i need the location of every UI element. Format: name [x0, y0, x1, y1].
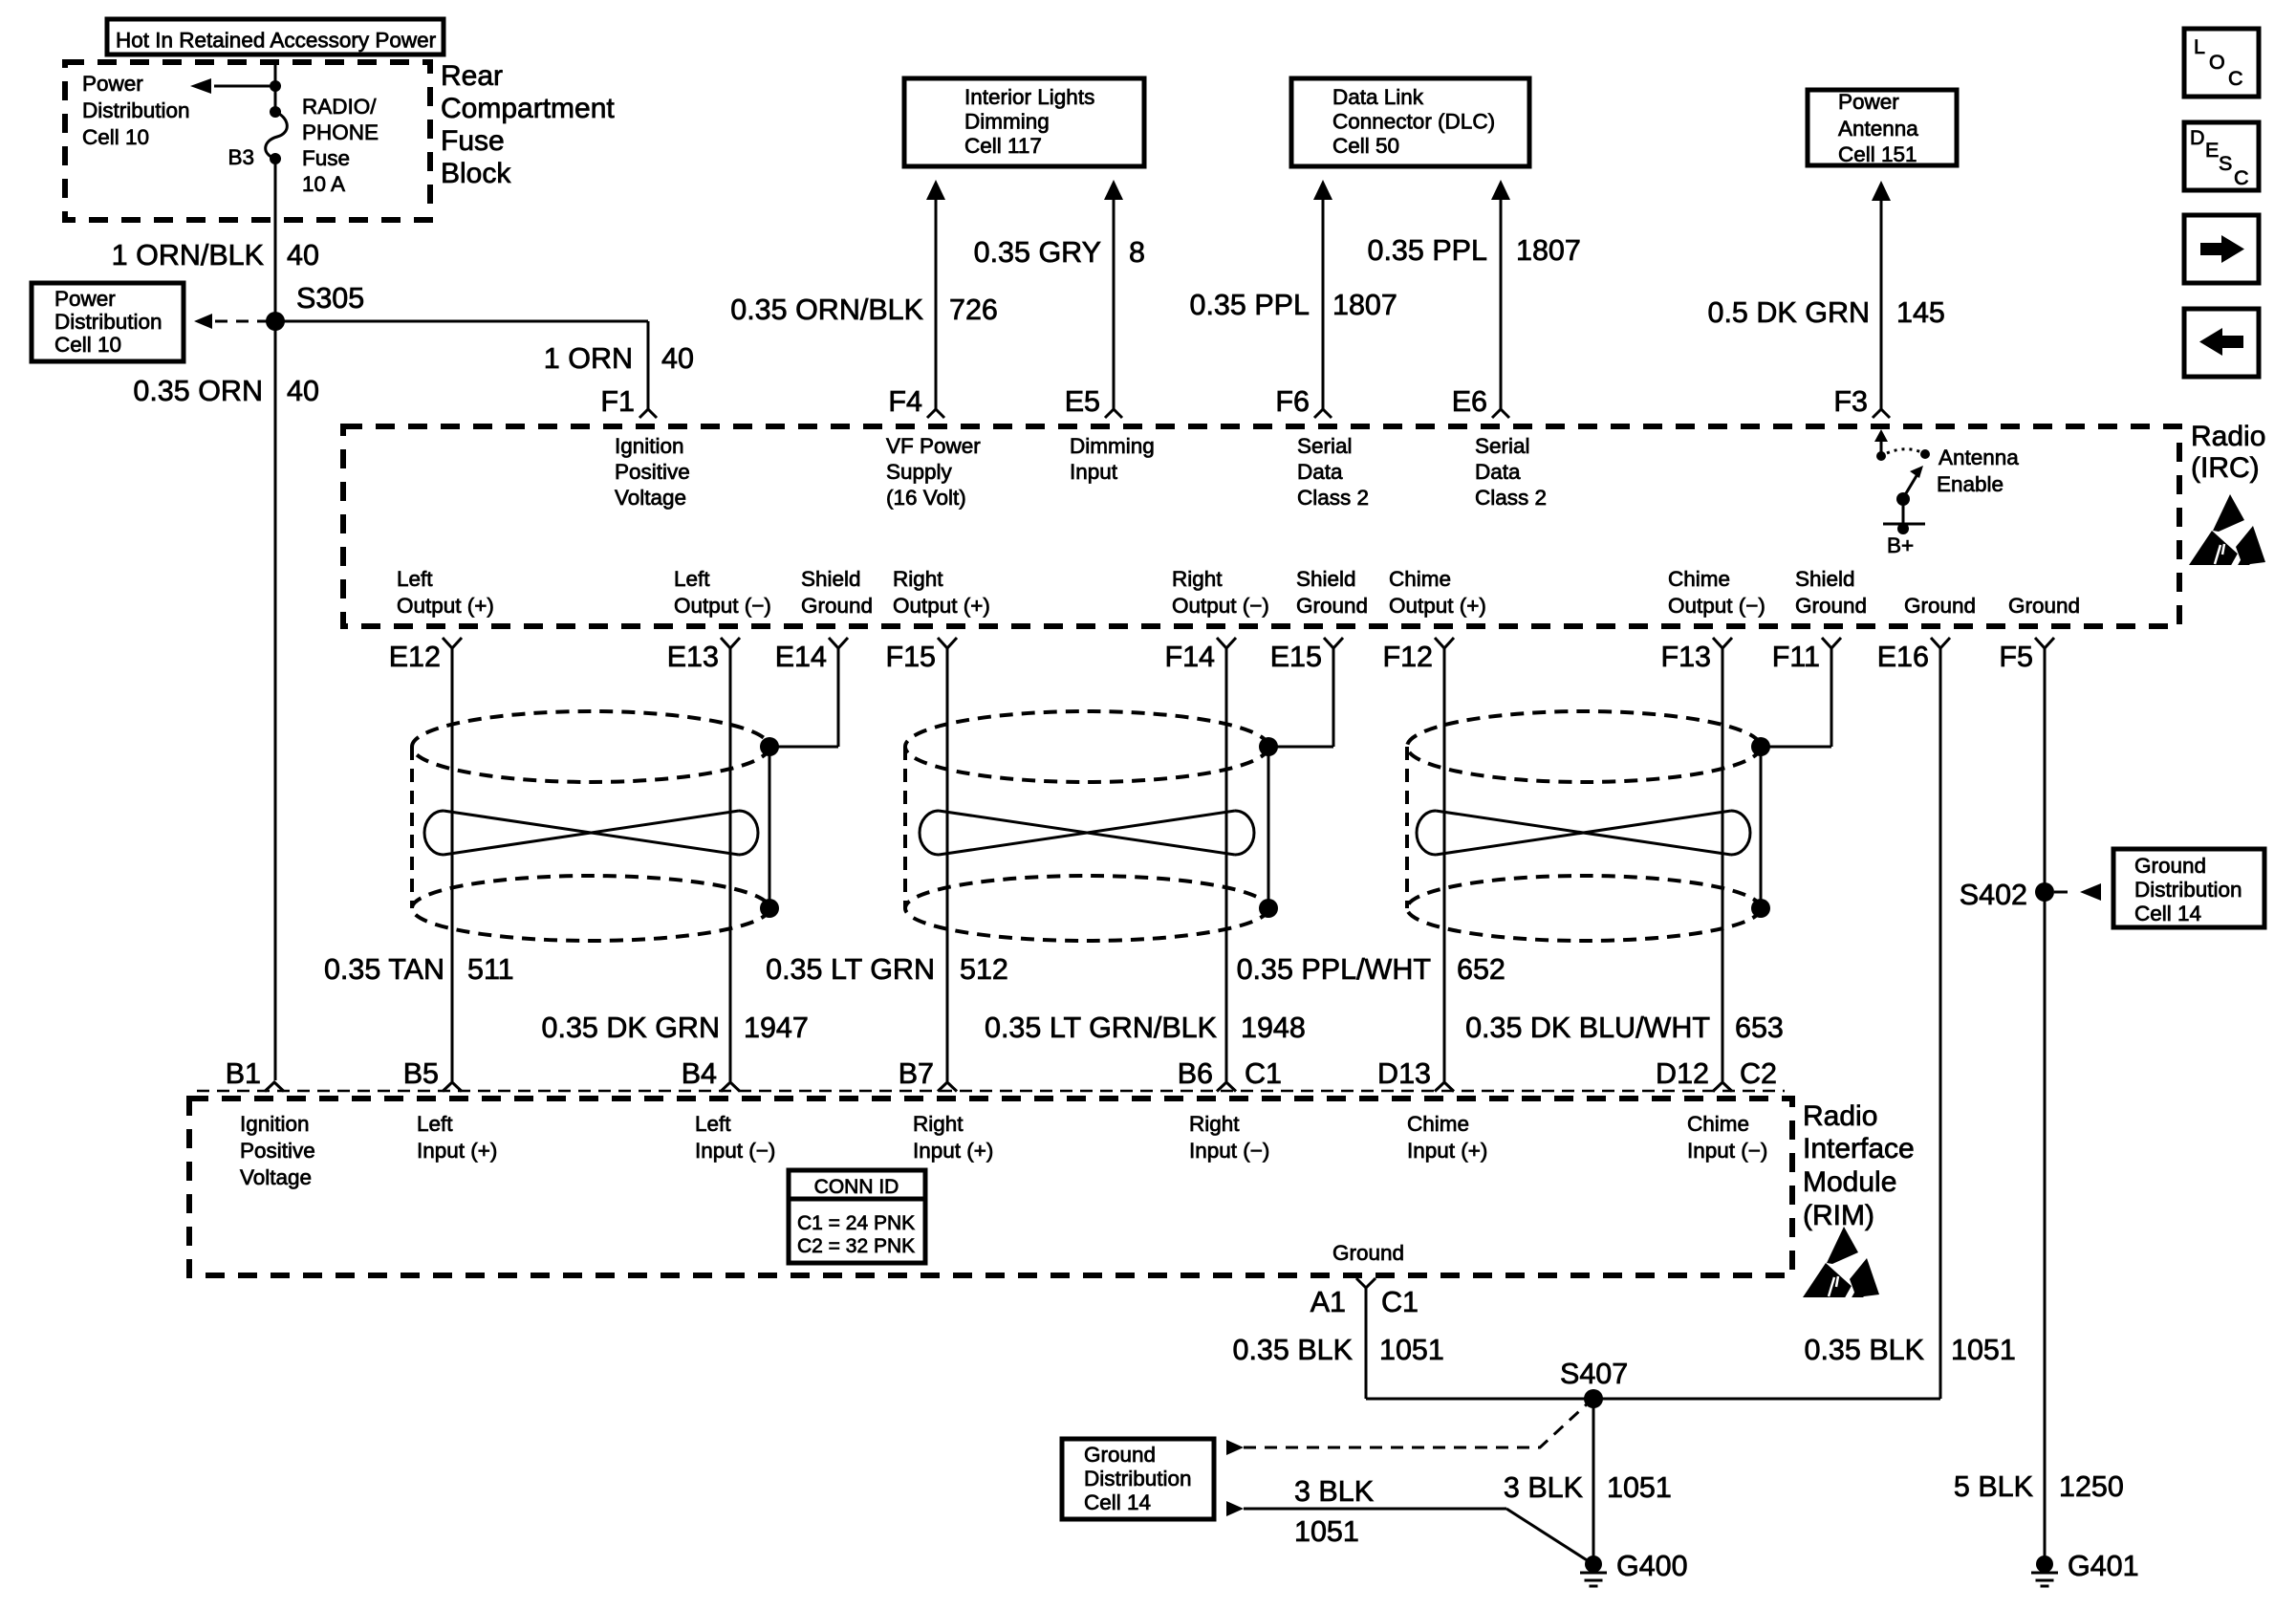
svg-text:F14: F14 [1164, 641, 1215, 673]
svg-text:F11: F11 [1772, 641, 1820, 673]
svg-text:(16 Volt): (16 Volt) [886, 486, 966, 510]
svg-text:Input: Input [1070, 460, 1118, 484]
svg-text:Compartment: Compartment [441, 93, 615, 124]
svg-text:1807: 1807 [1332, 289, 1397, 321]
svg-text:1051: 1051 [1294, 1515, 1359, 1548]
svg-text:(RIM): (RIM) [1803, 1200, 1874, 1231]
svg-text:C1: C1 [1245, 1057, 1282, 1090]
svg-text:(IRC): (IRC) [2191, 452, 2260, 484]
svg-text:F15: F15 [885, 641, 936, 673]
svg-text:Cell 117: Cell 117 [964, 134, 1042, 158]
svg-text:Chime: Chime [1668, 567, 1730, 591]
svg-text:Cell 10: Cell 10 [54, 333, 121, 357]
svg-text:Left: Left [397, 567, 433, 591]
svg-text:Cell 14: Cell 14 [2134, 902, 2201, 925]
svg-text:Power: Power [82, 72, 143, 96]
svg-text:E: E [2205, 139, 2219, 162]
svg-text:G400: G400 [1616, 1550, 1688, 1582]
svg-text:F13: F13 [1660, 641, 1711, 673]
svg-text:C2 = 32 PNK: C2 = 32 PNK [797, 1235, 915, 1257]
svg-text:B3: B3 [227, 145, 254, 169]
svg-text:Power: Power [54, 287, 116, 311]
svg-text:Cell 14: Cell 14 [1084, 1490, 1151, 1514]
svg-text:10 A: 10 A [302, 172, 345, 196]
svg-text:Fuse: Fuse [441, 125, 505, 157]
svg-text:Antenna: Antenna [1939, 446, 2019, 469]
svg-text:Fuse: Fuse [302, 146, 350, 170]
svg-text:Ground: Ground [2008, 594, 2080, 618]
svg-text:Right: Right [1172, 567, 1223, 591]
svg-text:B+: B+ [1887, 533, 1914, 557]
svg-text:8: 8 [1129, 236, 1145, 269]
svg-text:726: 726 [949, 294, 998, 326]
svg-text:0.5 DK GRN: 0.5 DK GRN [1708, 296, 1871, 329]
svg-text:B6: B6 [1178, 1057, 1213, 1090]
svg-text:Output (−): Output (−) [674, 594, 771, 618]
svg-text:0.35 ORN/BLK: 0.35 ORN/BLK [730, 294, 923, 326]
svg-text:Voltage: Voltage [615, 486, 686, 510]
svg-text:Serial: Serial [1297, 434, 1353, 458]
svg-text:Distribution: Distribution [1084, 1467, 1192, 1490]
svg-text:Antenna: Antenna [1838, 117, 1918, 141]
svg-text:Cell 151: Cell 151 [1838, 142, 1917, 166]
svg-text:Chime: Chime [1407, 1112, 1469, 1136]
svg-text:Chime: Chime [1687, 1112, 1749, 1136]
svg-text:Serial: Serial [1475, 434, 1530, 458]
svg-text:E15: E15 [1270, 641, 1322, 673]
svg-text:1 ORN/BLK: 1 ORN/BLK [112, 239, 264, 272]
svg-text:Interior Lights: Interior Lights [964, 85, 1094, 109]
svg-text:Data: Data [1475, 460, 1521, 484]
svg-text:Ground: Ground [1084, 1443, 1156, 1467]
svg-text:Shield: Shield [1795, 567, 1855, 591]
svg-text:Class 2: Class 2 [1475, 486, 1547, 510]
svg-text:Right: Right [913, 1112, 964, 1136]
svg-text:Input (+): Input (+) [417, 1139, 497, 1163]
svg-text:E16: E16 [1877, 641, 1929, 673]
svg-text:B1: B1 [226, 1057, 261, 1090]
svg-text:1 ORN: 1 ORN [544, 342, 633, 375]
svg-text:Left: Left [417, 1112, 453, 1136]
svg-text:652: 652 [1457, 953, 1505, 986]
svg-text:3 BLK: 3 BLK [1294, 1475, 1374, 1508]
svg-text:0.35 PPL/WHT: 0.35 PPL/WHT [1237, 953, 1431, 986]
svg-text:Distribution: Distribution [82, 98, 190, 122]
svg-text:40: 40 [287, 239, 319, 272]
svg-text:D: D [2190, 126, 2205, 149]
svg-text:0.35 PPL: 0.35 PPL [1190, 289, 1310, 321]
svg-text:Ground: Ground [801, 594, 873, 618]
svg-text:3 BLK: 3 BLK [1504, 1471, 1583, 1504]
svg-text:Module: Module [1803, 1166, 1896, 1198]
svg-text:Cell 10: Cell 10 [82, 125, 149, 149]
svg-text:Output (−): Output (−) [1668, 594, 1765, 618]
svg-text:1051: 1051 [1379, 1334, 1444, 1366]
svg-text:Ground: Ground [1795, 594, 1867, 618]
svg-text:C: C [2234, 166, 2249, 189]
svg-text:Data: Data [1297, 460, 1343, 484]
svg-text:PHONE: PHONE [302, 120, 379, 144]
svg-text:F3: F3 [1833, 385, 1868, 418]
svg-text:Input (+): Input (+) [913, 1139, 993, 1163]
svg-text:B4: B4 [682, 1057, 717, 1090]
svg-text:1250: 1250 [2059, 1470, 2124, 1503]
svg-text:D13: D13 [1377, 1057, 1431, 1090]
svg-text:Chime: Chime [1389, 567, 1451, 591]
svg-text:Output (+): Output (+) [1389, 594, 1486, 618]
svg-text:G401: G401 [2068, 1550, 2139, 1582]
svg-text:C1 = 24 PNK: C1 = 24 PNK [797, 1212, 915, 1234]
svg-text:Connector (DLC): Connector (DLC) [1332, 110, 1495, 134]
svg-text:Hot In Retained Accessory Powe: Hot In Retained Accessory Power [116, 29, 437, 53]
svg-text:L: L [2194, 35, 2205, 58]
svg-text:A1: A1 [1310, 1286, 1346, 1318]
svg-text:40: 40 [287, 375, 319, 407]
svg-text:Dimming: Dimming [964, 110, 1050, 134]
svg-text:1807: 1807 [1516, 234, 1581, 267]
svg-text:Ground: Ground [1332, 1241, 1404, 1265]
svg-text:Output (+): Output (+) [893, 594, 990, 618]
svg-text:0.35 ORN: 0.35 ORN [133, 375, 263, 407]
svg-text:E12: E12 [389, 641, 441, 673]
svg-text:5 BLK: 5 BLK [1954, 1470, 2033, 1503]
svg-text:Ground: Ground [2134, 854, 2206, 878]
svg-text:F1: F1 [600, 385, 635, 418]
svg-text:1051: 1051 [1607, 1471, 1672, 1504]
svg-text:Output (+): Output (+) [397, 594, 494, 618]
svg-text:Power: Power [1838, 90, 1899, 114]
svg-text:40: 40 [661, 342, 694, 375]
svg-text:E5: E5 [1065, 385, 1100, 418]
svg-text:Rear: Rear [441, 60, 503, 92]
svg-text:Distribution: Distribution [54, 310, 162, 334]
svg-text:S407: S407 [1560, 1358, 1628, 1390]
svg-text:0.35 LT GRN/BLK: 0.35 LT GRN/BLK [985, 1012, 1217, 1044]
svg-text:512: 512 [960, 953, 1008, 986]
svg-text:Shield: Shield [1296, 567, 1356, 591]
svg-text:Input (−): Input (−) [1687, 1139, 1767, 1163]
svg-text:1051: 1051 [1951, 1334, 2016, 1366]
svg-text:B7: B7 [899, 1057, 934, 1090]
svg-text:Data Link: Data Link [1332, 85, 1424, 109]
svg-text:Right: Right [1189, 1112, 1240, 1136]
svg-text:B5: B5 [403, 1057, 439, 1090]
svg-text:C2: C2 [1740, 1057, 1777, 1090]
svg-text:Right: Right [893, 567, 943, 591]
svg-text:Radio: Radio [2191, 421, 2265, 452]
svg-text:Class 2: Class 2 [1297, 486, 1369, 510]
svg-text:Left: Left [695, 1112, 731, 1136]
svg-text:0.35 PPL: 0.35 PPL [1368, 234, 1488, 267]
svg-text:Ground: Ground [1296, 594, 1368, 618]
svg-text:0.35 BLK: 0.35 BLK [1233, 1334, 1354, 1366]
svg-text:Shield: Shield [801, 567, 861, 591]
svg-text:Ground: Ground [1904, 594, 1976, 618]
svg-text:Ignition: Ignition [240, 1112, 310, 1136]
svg-text:Block: Block [441, 158, 511, 189]
svg-text:Input (−): Input (−) [695, 1139, 775, 1163]
svg-text:0.35 LT GRN: 0.35 LT GRN [766, 953, 935, 986]
svg-text:Left: Left [674, 567, 710, 591]
svg-text:0.35 DK GRN: 0.35 DK GRN [542, 1012, 720, 1044]
svg-text:F6: F6 [1275, 385, 1310, 418]
svg-text:0.35 DK BLU/WHT: 0.35 DK BLU/WHT [1465, 1012, 1710, 1044]
svg-text:Voltage: Voltage [240, 1165, 312, 1189]
svg-text:C: C [2228, 67, 2243, 90]
svg-text:1947: 1947 [744, 1012, 809, 1044]
svg-text:Cell 50: Cell 50 [1332, 134, 1399, 158]
svg-text:F4: F4 [888, 385, 922, 418]
svg-text:E14: E14 [775, 641, 827, 673]
svg-text:O: O [2209, 51, 2225, 74]
svg-text:D12: D12 [1656, 1057, 1709, 1090]
svg-text:Positive: Positive [615, 460, 690, 484]
svg-text:Input (+): Input (+) [1407, 1139, 1487, 1163]
svg-text:S305: S305 [296, 282, 364, 315]
svg-text:Dimming: Dimming [1070, 434, 1155, 458]
svg-text:145: 145 [1896, 296, 1945, 329]
svg-text:653: 653 [1735, 1012, 1784, 1044]
svg-text:0.35 GRY: 0.35 GRY [974, 236, 1101, 269]
svg-text:511: 511 [467, 953, 514, 986]
svg-text:Distribution: Distribution [2134, 878, 2242, 902]
svg-text:F5: F5 [1999, 641, 2033, 673]
svg-text:Positive: Positive [240, 1139, 315, 1163]
svg-text:F12: F12 [1382, 641, 1433, 673]
svg-text:Interface: Interface [1803, 1133, 1915, 1164]
svg-text:S: S [2219, 152, 2232, 175]
svg-text:C1: C1 [1381, 1286, 1419, 1318]
svg-text:Output (−): Output (−) [1172, 594, 1269, 618]
svg-text:S402: S402 [1960, 879, 2027, 911]
svg-text:Input (−): Input (−) [1189, 1139, 1269, 1163]
svg-text:VF Power: VF Power [886, 434, 981, 458]
svg-text:Enable: Enable [1937, 472, 2004, 496]
svg-text:0.35 BLK: 0.35 BLK [1805, 1334, 1925, 1366]
svg-text:E13: E13 [667, 641, 719, 673]
svg-text:Ignition: Ignition [615, 434, 684, 458]
svg-text:E6: E6 [1452, 385, 1487, 418]
svg-text:CONN ID: CONN ID [814, 1176, 899, 1198]
svg-text:0.35 TAN: 0.35 TAN [324, 953, 444, 986]
svg-text:Radio: Radio [1803, 1100, 1877, 1132]
svg-text:1948: 1948 [1241, 1012, 1306, 1044]
svg-text:Supply: Supply [886, 460, 953, 484]
svg-text:RADIO/: RADIO/ [302, 95, 377, 119]
